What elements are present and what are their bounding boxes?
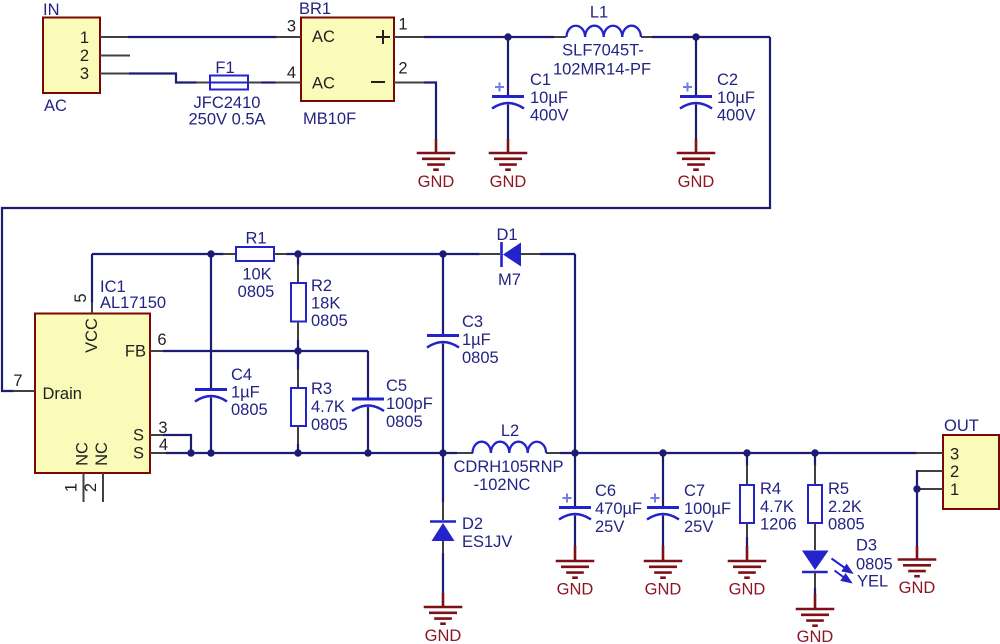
svg-text:GND: GND — [678, 173, 715, 191]
svg-text:ES1JV: ES1JV — [462, 533, 512, 551]
capacitor C7 — [662, 453, 664, 507]
svg-text:AC: AC — [312, 75, 335, 93]
svg-text:100µF: 100µF — [684, 500, 731, 518]
svg-text:10K: 10K — [242, 266, 271, 284]
svg-text:4.7K: 4.7K — [760, 498, 794, 516]
svg-text:250V 0.5A: 250V 0.5A — [188, 111, 265, 129]
node C5 bottom — [364, 449, 371, 456]
wire F1 to BR1.4 — [261, 81, 276, 83]
ground GND (C1) — [489, 139, 528, 170]
svg-text:3: 3 — [287, 18, 296, 36]
svg-text:0805: 0805 — [311, 416, 348, 434]
ground GND (C7) — [644, 546, 683, 578]
svg-text:Drain: Drain — [43, 385, 82, 403]
wire S rail — [166, 452, 457, 454]
svg-text:C7: C7 — [684, 482, 705, 500]
svg-text:IN: IN — [43, 1, 60, 19]
svg-text:MB10F: MB10F — [303, 110, 356, 128]
svg-text:4: 4 — [159, 436, 168, 454]
IC1 pin 5 VCC — [91, 302, 93, 314]
svg-text:L2: L2 — [501, 422, 519, 440]
svg-text:D3: D3 — [856, 537, 877, 555]
svg-text:0805: 0805 — [856, 556, 893, 574]
svg-text:0805: 0805 — [462, 349, 499, 367]
svg-text:5: 5 — [72, 293, 90, 302]
IC U1 body AL17150 — [35, 314, 150, 474]
svg-text:GND: GND — [418, 173, 455, 191]
svg-text:C5: C5 — [386, 377, 407, 395]
svg-text:OUT: OUT — [944, 417, 979, 435]
svg-text:F1: F1 — [215, 59, 234, 77]
svg-text:S: S — [133, 427, 144, 445]
ground GND (C2) — [677, 139, 716, 170]
svg-text:SLF7045T-: SLF7045T- — [562, 42, 644, 60]
svg-text:GND: GND — [557, 581, 594, 599]
svg-text:0805: 0805 — [311, 312, 348, 330]
wire IN.1 to BR1.3 — [128, 36, 277, 38]
svg-text:2: 2 — [950, 463, 959, 481]
LED D3 — [802, 551, 829, 571]
svg-text:2: 2 — [398, 60, 407, 78]
fuse F1 — [196, 82, 210, 84]
svg-text:100pF: 100pF — [386, 395, 433, 413]
svg-text:400V: 400V — [530, 107, 569, 125]
svg-text:GND: GND — [645, 581, 682, 599]
svg-text:C1: C1 — [530, 71, 551, 89]
svg-text:D2: D2 — [462, 515, 483, 533]
wire rail loop down-left to IC1.7 — [2, 37, 770, 391]
svg-text:10µF: 10µF — [530, 89, 568, 107]
svg-text:1µF: 1µF — [231, 384, 260, 402]
svg-text:2: 2 — [80, 47, 89, 65]
ground GND (D3) — [796, 594, 835, 626]
svg-text:2: 2 — [82, 483, 100, 492]
LED D3 arrows — [832, 559, 852, 583]
svg-text:C3: C3 — [462, 313, 483, 331]
svg-text:102MR14-PF: 102MR14-PF — [553, 61, 651, 79]
wire IC1.3 jog to S rail — [163, 435, 191, 453]
svg-text:R5: R5 — [828, 480, 849, 498]
connector J-OUT body — [943, 435, 999, 509]
ground GND (R4) — [728, 546, 767, 578]
svg-text:D1: D1 — [496, 226, 517, 244]
capacitor C3 — [442, 254, 444, 334]
wire IC1.5 riser — [91, 254, 93, 303]
svg-text:0805: 0805 — [828, 516, 865, 534]
svg-text:GND: GND — [425, 627, 462, 644]
svg-text:18K: 18K — [311, 295, 340, 313]
svg-text:VCC: VCC — [83, 318, 101, 353]
svg-text:R1: R1 — [245, 230, 266, 248]
svg-text:C4: C4 — [231, 366, 252, 384]
svg-text:4: 4 — [287, 64, 296, 82]
node OUT.1/OUT.2 — [913, 485, 920, 492]
svg-text:M7: M7 — [498, 271, 521, 289]
svg-text:6: 6 — [157, 331, 166, 349]
wire FB net — [163, 350, 368, 352]
svg-text:7: 7 — [13, 372, 22, 390]
svg-text:3: 3 — [80, 65, 89, 83]
inductor L2 — [457, 452, 473, 454]
node C1 tap — [504, 33, 511, 40]
svg-text:GND: GND — [899, 579, 936, 597]
resistor R5 — [814, 453, 816, 466]
diode D2 — [442, 453, 444, 503]
node C4/VCC — [207, 250, 214, 257]
svg-text:C6: C6 — [595, 482, 616, 500]
node C3/D2 — [439, 449, 446, 456]
wire D1 cathode drop — [574, 254, 576, 453]
node C4 bottom — [207, 449, 214, 456]
svg-text:1µF: 1µF — [462, 331, 491, 349]
svg-text:FB: FB — [125, 343, 146, 361]
wire BR1.1 main rail — [424, 36, 554, 38]
svg-text:AC: AC — [44, 97, 67, 115]
wire output rail — [560, 452, 917, 454]
svg-text:25V: 25V — [595, 518, 624, 536]
svg-text:1: 1 — [398, 16, 407, 34]
node C2 tap — [692, 33, 699, 40]
node R3 bottom — [294, 449, 301, 456]
ground GND (C6) — [556, 546, 595, 578]
svg-text:GND: GND — [729, 581, 766, 599]
svg-text:4.7K: 4.7K — [311, 398, 345, 416]
resistor R4 — [746, 453, 748, 466]
svg-text:YEL: YEL — [857, 573, 888, 591]
svg-text:0805: 0805 — [386, 413, 423, 431]
resistor R1 — [223, 253, 236, 255]
svg-text:BR1: BR1 — [299, 0, 331, 18]
wire OUT.1 to GND — [916, 489, 918, 547]
ground GND (OUT) — [898, 546, 937, 576]
node L2/D1/C6 — [571, 449, 578, 456]
svg-text:10µF: 10µF — [717, 89, 755, 107]
svg-text:L1: L1 — [590, 4, 608, 22]
node R5 tap — [811, 449, 818, 456]
node R2/VCC — [294, 250, 301, 257]
node FB/R2/R3 — [294, 347, 301, 354]
capacitor C5 — [352, 398, 384, 401]
svg-text:R3: R3 — [311, 380, 332, 398]
inductor L1 — [554, 36, 566, 38]
capacitor C4 — [210, 254, 212, 388]
svg-text:3: 3 — [950, 446, 959, 464]
svg-text:C2: C2 — [717, 71, 738, 89]
wire IN.3 to F1 — [129, 74, 197, 83]
svg-text:0805: 0805 — [231, 401, 268, 419]
diode D1 — [479, 253, 500, 255]
svg-text:NC: NC — [93, 442, 111, 466]
capacitor C6 — [574, 453, 576, 507]
resistor R2 — [297, 254, 299, 265]
svg-text:S: S — [133, 445, 144, 463]
wire OUT.2 to OUT.1 — [916, 470, 918, 489]
svg-text:AL17150: AL17150 — [100, 294, 166, 312]
connector J-IN body — [43, 18, 100, 94]
svg-text:1: 1 — [80, 29, 89, 47]
ground GND (BR1) — [417, 139, 456, 170]
svg-text:NC: NC — [74, 442, 92, 466]
svg-text:2.2K: 2.2K — [828, 498, 862, 516]
svg-text:GND: GND — [490, 173, 527, 191]
node C3/VCC — [439, 250, 446, 257]
svg-text:CDRH105RNP: CDRH105RNP — [453, 458, 563, 476]
svg-text:25V: 25V — [684, 518, 713, 536]
svg-text:R4: R4 — [760, 480, 781, 498]
capacitor C2 — [695, 37, 697, 96]
capacitor C1 — [507, 37, 509, 96]
wire VCC rail — [92, 253, 224, 255]
svg-text:470µF: 470µF — [595, 500, 642, 518]
svg-text:400V: 400V — [717, 107, 756, 125]
svg-text:0805: 0805 — [238, 283, 275, 301]
svg-text:GND: GND — [797, 628, 834, 644]
node C7 tap — [659, 449, 666, 456]
svg-text:R2: R2 — [311, 277, 332, 295]
node S/pin3 — [187, 449, 194, 456]
svg-text:JFC2410: JFC2410 — [194, 94, 261, 112]
resistor R3 — [297, 351, 299, 370]
svg-text:AC: AC — [312, 28, 335, 46]
wire BR1.2 to GND — [424, 83, 436, 141]
svg-text:-102NC: -102NC — [474, 476, 531, 494]
svg-text:1: 1 — [63, 483, 81, 492]
svg-text:1: 1 — [950, 481, 959, 499]
node R4 tap — [743, 449, 750, 456]
ground GND (D2) — [424, 593, 463, 624]
svg-text:1206: 1206 — [760, 516, 797, 534]
